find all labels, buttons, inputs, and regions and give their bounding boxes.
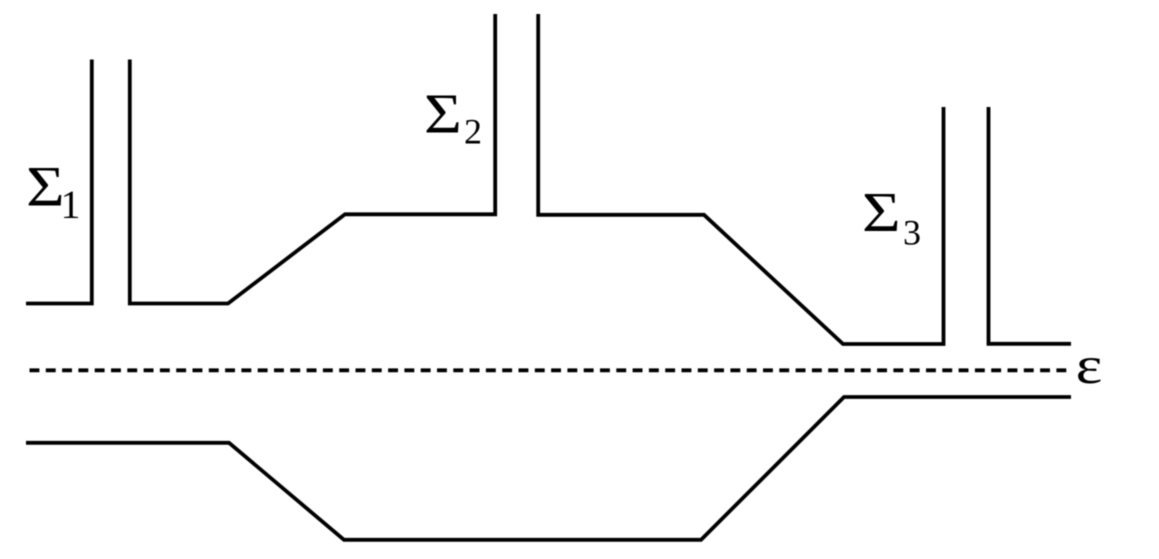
svg-text:1: 1 <box>61 182 81 227</box>
wire: tube3 right wall and upper boundary right horizontal <box>989 107 1072 344</box>
svg-text:2: 2 <box>464 112 482 152</box>
svg-text:ε: ε <box>1076 336 1103 395</box>
node Sigma2: label <box>424 84 482 152</box>
svg-text:Σ: Σ <box>424 84 462 146</box>
node Sigma3: label <box>862 182 921 253</box>
svg-text:Σ: Σ <box>26 156 64 219</box>
wire: upper boundary left segment with tube1 left wall <box>26 60 92 304</box>
wire: tube2 right wall, plateau, down-slope, horizontal, tube3 left wall <box>538 14 943 344</box>
wire: lower boundary full polyline <box>26 397 1071 540</box>
node epsilon: dashed horizontal slice line <box>30 368 1073 372</box>
wire: tube1 right wall, horizontal, up-slope, plateau, tube2 left wall <box>130 14 495 304</box>
svg-text:Σ: Σ <box>862 182 901 244</box>
svg-text:3: 3 <box>903 213 921 253</box>
node Sigma1: label <box>26 156 80 227</box>
